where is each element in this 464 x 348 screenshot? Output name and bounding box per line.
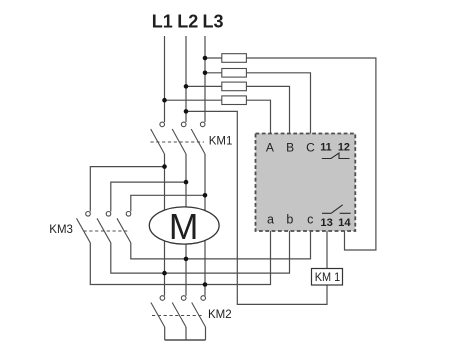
contactor KM2 pole 1 bbox=[151, 296, 165, 327]
junction dot L3-KM3 bbox=[203, 193, 208, 198]
contactor KM2 pole 3 bbox=[192, 296, 206, 327]
contactor KM2 pole 2 bbox=[172, 296, 186, 327]
fuse F3 bbox=[222, 82, 247, 91]
svg-text:KM1: KM1 bbox=[209, 136, 233, 148]
wire L2 to fuse F3 bbox=[186, 85, 222, 87]
coil KM1 box bbox=[312, 269, 343, 286]
svg-text:b: b bbox=[286, 213, 293, 227]
svg-text:KM3: KM3 bbox=[49, 224, 73, 236]
contactor KM2 linkage bbox=[152, 315, 204, 317]
contactor KM3 pole 2 bbox=[97, 212, 111, 243]
junction dot L3-F1 bbox=[203, 56, 208, 61]
wire L2 lower vertical bbox=[185, 154, 187, 296]
fuse F2 bbox=[222, 69, 247, 78]
wire fuse F3 output to terminal B bbox=[246, 86, 289, 134]
svg-text:11: 11 bbox=[320, 142, 331, 154]
wire KM3 pole2 to line b bbox=[111, 231, 290, 273]
junction dot L1-KM3 bbox=[162, 164, 167, 169]
contactor KM1 pole 3 bbox=[191, 122, 205, 154]
contactor KM3 pole 1 bbox=[77, 212, 91, 243]
wire L3 vertical feed bbox=[204, 36, 206, 122]
junction dot line c / L2 bbox=[184, 257, 189, 262]
motor M1 body bbox=[149, 207, 219, 244]
junction dot L2-F3 bbox=[184, 84, 189, 89]
wire branch L1 to KM3 pole 1 bbox=[90, 167, 164, 212]
contactor KM3 linkage bbox=[84, 230, 131, 232]
wire fuse F1 output to right riser and terminal 14 bbox=[246, 58, 376, 250]
wire fuse F2 output to terminal C bbox=[246, 73, 310, 135]
wire L2 to KM1 coil return bbox=[186, 111, 327, 304]
contact 11-12 symbol bbox=[322, 153, 350, 159]
fuse F4 bbox=[222, 96, 247, 105]
svg-text:M: M bbox=[169, 206, 199, 247]
svg-text:L2: L2 bbox=[177, 12, 198, 32]
wire L1 vertical feed bbox=[164, 36, 166, 122]
contactor KM1 pole 2 bbox=[172, 122, 186, 154]
wire KM3 pole1 to line a bbox=[90, 231, 270, 285]
contactor KM1 pole 1 bbox=[151, 122, 165, 154]
junction dot L1-F4 bbox=[162, 98, 167, 103]
wire L1 to fuse F4 bbox=[165, 99, 222, 101]
svg-text:L1: L1 bbox=[152, 12, 173, 32]
svg-text:14: 14 bbox=[338, 217, 351, 229]
wire KM2 star bar bbox=[165, 339, 206, 341]
svg-text:KM2: KM2 bbox=[208, 309, 232, 321]
junction dot L3-F2 bbox=[203, 71, 208, 76]
svg-text:L3: L3 bbox=[202, 12, 223, 32]
svg-text:c: c bbox=[307, 213, 313, 227]
wire fuse F4 output to terminal A bbox=[246, 100, 270, 134]
svg-text:C: C bbox=[306, 141, 315, 155]
junction dot line a / L3 bbox=[203, 282, 208, 287]
fuse F1 bbox=[222, 54, 247, 63]
wire branch L3 to KM3 pole 3 bbox=[131, 195, 205, 211]
wire L2 vertical feed bbox=[185, 36, 187, 122]
svg-text:KM 1: KM 1 bbox=[315, 272, 341, 284]
wire L3 to fuse F1 bbox=[205, 57, 222, 59]
svg-text:a: a bbox=[267, 213, 274, 227]
wire KM2 pole 1 lower bbox=[164, 327, 166, 340]
wire L3 to fuse F2 bbox=[205, 72, 222, 74]
svg-text:B: B bbox=[286, 141, 294, 155]
junction dot L2-KM3 bbox=[184, 180, 189, 185]
junction dot L2-coil bbox=[184, 109, 189, 114]
wire L3 lower vertical bbox=[204, 154, 206, 296]
wire L1 lower vertical bbox=[164, 154, 166, 296]
svg-text:12: 12 bbox=[338, 142, 350, 154]
svg-text:A: A bbox=[266, 141, 274, 155]
contactor KM3 pole 3 bbox=[117, 212, 131, 243]
wire KM2 pole 2 lower bbox=[185, 327, 187, 340]
module U1 body bbox=[256, 134, 356, 232]
contactor KM1 linkage bbox=[151, 141, 205, 143]
wire KM3 pole3 to line c bbox=[131, 231, 311, 259]
wire KM2 pole 3 lower bbox=[205, 327, 207, 340]
svg-text:13: 13 bbox=[320, 217, 332, 229]
junction dot line b / L1 bbox=[162, 271, 167, 276]
wire terminal 13 to coil KM1 bbox=[326, 231, 328, 269]
contact 13-14 symbol bbox=[322, 205, 351, 214]
wire branch L2 to KM3 pole 2 bbox=[111, 182, 186, 211]
